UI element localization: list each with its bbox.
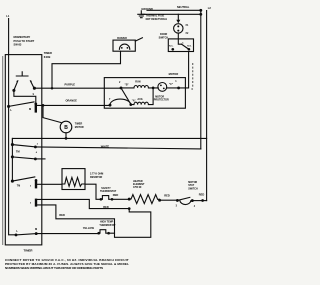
wire L2 bus <box>206 11 208 201</box>
wire protector to terminal 1 <box>153 87 179 89</box>
svg-text:RUN: RUN <box>135 80 140 83</box>
svg-text:4750 W.: 4750 W. <box>133 186 142 189</box>
timer cam blade L-M <box>9 102 34 107</box>
motor protector circle <box>158 83 167 92</box>
resistor R1 label <box>90 173 103 179</box>
timer box outer edge line <box>2 56 4 245</box>
svg-text:THERMAL FUSE: THERMAL FUSE <box>146 15 165 18</box>
cent switch label <box>188 181 198 190</box>
svg-text:TIMER: TIMER <box>44 51 52 55</box>
svg-text:WHITE: WHITE <box>101 144 110 148</box>
timer contact L bottom <box>15 233 18 236</box>
svg-text:BUZZER: BUZZER <box>117 37 127 40</box>
thermal fuse F circle <box>174 24 183 33</box>
door switch NC terminal <box>171 48 174 51</box>
svg-text:M: M <box>29 107 31 111</box>
svg-text:ORANGE: ORANGE <box>66 98 78 102</box>
run winding <box>121 85 153 87</box>
safety thermostat S2 <box>100 198 103 201</box>
timer motor B1 feed wire <box>42 104 45 107</box>
svg-text:"B": "B" <box>125 84 129 87</box>
motor terminal 7 <box>109 104 112 107</box>
svg-text:RED: RED <box>103 205 109 209</box>
svg-text:N.O.: N.O. <box>187 45 192 47</box>
wire timer motor to wire A <box>65 133 67 139</box>
timer cam blade bottom L-M <box>16 234 36 235</box>
push-to-start switch label <box>14 35 35 47</box>
motor terminal 1 <box>177 86 180 89</box>
timer contact bar M <box>35 103 37 112</box>
wire terminal 1 to door switch NO <box>179 52 189 88</box>
svg-text:RED: RED <box>164 193 170 197</box>
timer box <box>5 55 42 245</box>
aux winding <box>131 88 153 105</box>
svg-text:RESISTOR: RESISTOR <box>90 176 102 179</box>
node heater left junction <box>128 198 131 201</box>
svg-text:"C": "C" <box>169 83 173 86</box>
door switch box <box>168 39 193 52</box>
wire safety thermostat to heater <box>112 198 129 200</box>
wire white to neutral bus <box>35 147 200 149</box>
motor centrifugal switch terminal 4 <box>191 199 194 202</box>
svg-text:NUMBERS WHEN WRITING ABOUT THI: NUMBERS WHEN WRITING ABOUT THIS DRYER OR… <box>5 266 103 270</box>
svg-text:SWITCH: SWITCH <box>188 187 198 190</box>
wire resistor to safety thermostat <box>85 184 100 199</box>
timer cam blade lower group <box>12 177 34 181</box>
motor box <box>104 78 185 109</box>
pushbutton contact dots <box>12 89 15 92</box>
svg-text:AUX.: AUX. <box>137 98 143 101</box>
motor start arc <box>110 99 131 105</box>
node neutral junction dots <box>199 9 202 12</box>
node run-aux junction <box>152 87 155 90</box>
node heater right <box>158 199 161 202</box>
wire buzzer branch <box>52 51 121 88</box>
neutral bus <box>200 10 202 149</box>
svg-text:NOT RESETTABLE: NOT RESETTABLE <box>146 18 168 21</box>
svg-text:6: 6 <box>30 202 31 204</box>
svg-text:RED: RED <box>59 213 65 217</box>
svg-text:MOTOR: MOTOR <box>169 72 179 76</box>
motor centrifugal switch terminal 3 <box>176 199 179 202</box>
door switch blade <box>182 44 189 49</box>
svg-text:PURPLE: PURPLE <box>65 83 76 87</box>
node L dot on L1 bus <box>7 105 10 108</box>
pushbutton S1 momentary <box>14 72 34 90</box>
svg-text:5: 5 <box>30 185 31 187</box>
door switch label <box>159 33 169 40</box>
timer contact M bottom <box>35 232 38 235</box>
wire L1 bus <box>9 19 16 235</box>
resistor R1 box <box>62 169 85 190</box>
motor internal blade 2-A <box>121 88 131 104</box>
door switch NO terminal <box>188 48 191 51</box>
svg-text:NEUTRAL: NEUTRAL <box>177 5 190 9</box>
timer contact bar A <box>35 180 37 189</box>
svg-text:MOTOR: MOTOR <box>75 126 84 129</box>
timer left contact chain <box>11 138 13 181</box>
high temp thermostat S3 <box>97 232 100 235</box>
wire heater to cent switch <box>160 199 178 201</box>
svg-text:PUSH TO START: PUSH TO START <box>14 39 35 43</box>
heater element zigzag <box>129 195 159 204</box>
svg-text:THERMOSTAT: THERMOSTAT <box>100 190 117 193</box>
svg-text:MOMENTARY: MOMENTARY <box>14 35 31 39</box>
buzzer symbol <box>119 44 129 49</box>
svg-text:N.C.: N.C. <box>169 45 174 47</box>
svg-text:SWITCH: SWITCH <box>159 36 169 39</box>
svg-text:TM: TM <box>16 150 20 154</box>
wire fuse feed <box>177 14 179 21</box>
motor protector label <box>154 95 169 101</box>
svg-text:SW-83: SW-83 <box>14 43 22 47</box>
wire purple to motor terminal 2 <box>34 87 121 89</box>
thermal fuse label <box>146 15 168 22</box>
resistor R1 zigzag <box>62 178 85 187</box>
wire cent switch to L2 bus <box>192 200 206 202</box>
bottom note text <box>5 258 129 270</box>
svg-text:RED: RED <box>199 192 205 196</box>
wire A to L2 bus <box>12 138 206 144</box>
buzzer box <box>113 40 135 51</box>
node buzzer branch on purple wire <box>51 87 54 90</box>
cent switch arc <box>180 201 191 205</box>
wire bar B top to heater junction <box>37 199 129 208</box>
wire neutral <box>147 9 201 11</box>
timer motor label <box>75 123 84 129</box>
wire orange to motor terminal 7 <box>37 104 110 106</box>
dashed linkage line <box>192 63 194 87</box>
svg-text:RED: RED <box>113 193 119 197</box>
timer label 64CB <box>44 51 52 59</box>
high temp thermostat label <box>99 221 116 227</box>
motor terminal A <box>129 103 132 106</box>
ground symbol <box>138 11 145 18</box>
svg-text:YELLOW: YELLOW <box>83 226 95 230</box>
cent switch blade <box>177 197 189 200</box>
wire bar B bottom red <box>37 205 115 233</box>
buzzer stub wire <box>135 38 142 41</box>
wire ground to neutral bus <box>141 13 201 15</box>
timer cam blade TM upper <box>12 145 35 147</box>
svg-text:TM: TM <box>17 186 20 188</box>
svg-text:M: M <box>35 227 37 231</box>
wire stub from TM lower <box>35 158 45 160</box>
node junction near L2 <box>201 199 204 202</box>
heater element label <box>133 180 145 189</box>
wire yellow <box>36 233 98 235</box>
wire fuse to door switch common <box>178 33 181 44</box>
svg-text:64CB: 64CB <box>44 55 51 59</box>
svg-text:B: B <box>64 125 68 131</box>
svg-text:DOOR: DOOR <box>160 33 167 36</box>
wire bar A to resistor <box>37 183 62 185</box>
motor terminal 2 <box>120 86 123 89</box>
wire high temp thermostat loop <box>109 209 151 238</box>
svg-text:PROTECTOR: PROTECTOR <box>154 99 169 102</box>
svg-text:TIMER: TIMER <box>24 249 34 253</box>
timer cam blade TM lower <box>12 157 35 159</box>
wire pushbutton left contact to M terminal <box>14 90 36 103</box>
timer motor B1 <box>60 121 72 133</box>
timer contact bar B <box>35 199 37 207</box>
safety thermostat label <box>100 187 117 193</box>
svg-text:THERMOSTAT: THERMOSTAT <box>99 224 116 227</box>
